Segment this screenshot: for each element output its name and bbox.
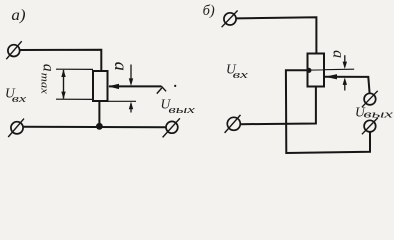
terminal output top-right (b): [362, 91, 378, 107]
terminal output bottom-right (a): [163, 118, 180, 137]
wire top (a): [20, 50, 102, 71]
dimension a (b): [343, 55, 347, 90]
svg-text:max: max: [39, 73, 51, 94]
svg-text:вых: вых: [168, 104, 195, 116]
svg-text:б): б): [203, 3, 215, 19]
terminal input bottom-left (b): [225, 115, 241, 133]
wire pin bottom (a): [98, 101, 100, 126]
potentiometer R (a): [93, 71, 108, 101]
terminal output bottom-right (b): [362, 118, 378, 134]
wiper arrow (a): [109, 85, 162, 87]
dimension a (a): [109, 65, 137, 113]
svg-text:вх: вх: [233, 69, 248, 81]
svg-text:a: a: [111, 62, 131, 71]
wire tap to output bottom (b): [286, 70, 370, 153]
junction tap dot (b): [306, 68, 311, 73]
terminal input top-left (a): [6, 41, 21, 59]
tap extension tick (b): [324, 68, 354, 71]
svg-text:а): а): [11, 7, 25, 24]
svg-text:a: a: [330, 50, 347, 58]
wiper arrow (b): [325, 77, 370, 94]
dimension a_max (a): [56, 69, 93, 99]
wire bottom rail (a): [23, 126, 166, 128]
terminal input bottom-left (a): [8, 119, 24, 137]
wire tap through body (b): [309, 69, 324, 71]
terminal input top-left (b): [222, 11, 238, 28]
svg-text:вх: вх: [12, 93, 27, 105]
wire bottom-left to R bottom (b): [240, 87, 316, 125]
potentiometer R (b): [308, 54, 325, 87]
wire top (b): [236, 17, 316, 53]
junction (a): [96, 123, 103, 130]
svg-text:вых: вых: [363, 109, 393, 120]
wiper end tick (a): [157, 86, 166, 93]
svg-text:a: a: [39, 64, 56, 72]
